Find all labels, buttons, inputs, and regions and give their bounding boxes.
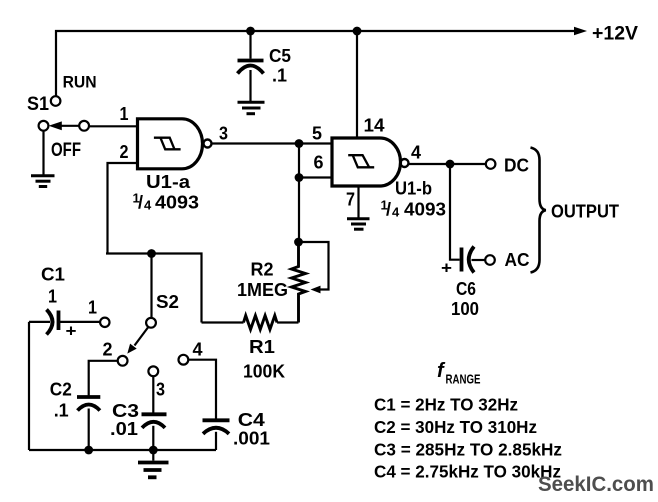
wire terminal 2 to C2 — [89, 361, 118, 396]
wire U1-b pin 6 — [299, 176, 332, 178]
svg-text:DC: DC — [504, 156, 529, 176]
wire S1 OFF to ground — [42, 131, 44, 175]
wire C6 to AC terminal — [472, 259, 486, 261]
svg-text:/: / — [386, 200, 391, 220]
node +12V arrow — [574, 27, 587, 35]
svg-text:3: 3 — [156, 380, 165, 400]
resistor R1 100K — [244, 316, 278, 330]
ground bottom bus — [138, 463, 169, 478]
wire rail to U1-b pin 14 — [356, 31, 358, 137]
svg-text:C4: C4 — [238, 410, 265, 430]
ground S1 — [31, 176, 55, 187]
junction dot pin 5 node — [295, 139, 304, 148]
svg-text:.1: .1 — [272, 66, 287, 86]
wire timing node horizontal — [106, 254, 202, 323]
svg-text:AC: AC — [505, 250, 530, 270]
wire C4 to bus — [215, 432, 217, 450]
wire C1 left lead — [29, 321, 50, 323]
junction dot R2 top node — [294, 238, 303, 247]
wire S2 tap down to pivot — [150, 254, 152, 319]
wire S1 pivot to U1-a pin 1 — [89, 125, 138, 127]
terminal DC — [486, 159, 496, 169]
svg-text:C1: C1 — [41, 265, 65, 285]
svg-text:OUTPUT: OUTPUT — [551, 202, 619, 222]
junction dot pin 6 node — [295, 173, 304, 182]
wire bottom bus — [29, 449, 216, 451]
wire C2 to bus — [88, 409, 90, 451]
svg-text:R2: R2 — [251, 260, 274, 280]
U1-b schmitt hysteresis glyph — [348, 155, 374, 167]
resistor R2 1MEG (rheostat) — [292, 242, 306, 323]
terminal AC — [485, 255, 495, 265]
svg-text:.1: .1 — [54, 401, 69, 421]
svg-text:C2 = 30Hz TO 310Hz: C2 = 30Hz TO 310Hz — [374, 417, 537, 437]
svg-text:2: 2 — [103, 340, 113, 360]
svg-text:.01: .01 — [110, 419, 138, 439]
svg-text:OFF: OFF — [51, 140, 81, 161]
R2 wiper arm — [299, 242, 329, 290]
svg-text:4093: 4093 — [155, 193, 199, 213]
capacitor C1 — [47, 310, 53, 335]
wire output node down to C6 — [450, 164, 460, 260]
svg-text:1MEG: 1MEG — [237, 280, 288, 300]
switch S1 OFF contact — [39, 121, 49, 131]
capacitor C6 — [460, 248, 464, 272]
junction dot C2 bus — [84, 446, 93, 455]
U1-b output bubble — [401, 159, 409, 167]
svg-text:C3 = 285Hz TO 2.85kHz: C3 = 285Hz TO 2.85kHz — [374, 440, 562, 460]
wire top +12V rail — [56, 31, 575, 96]
switch S2 pivot contact — [146, 318, 156, 328]
svg-text:+: + — [441, 259, 452, 278]
switch S2 wiper arrow — [135, 327, 149, 346]
junction dot output node — [446, 160, 455, 169]
svg-text:4: 4 — [144, 198, 152, 213]
svg-text:/: / — [138, 193, 143, 213]
svg-text:S2: S2 — [156, 292, 179, 312]
svg-text:4: 4 — [392, 205, 400, 220]
svg-text:14: 14 — [364, 116, 385, 136]
svg-text:4093: 4093 — [404, 200, 446, 220]
svg-text:3: 3 — [219, 124, 228, 144]
svg-text:C4 = 2.75kHz TO 30kHz: C4 = 2.75kHz TO 30kHz — [374, 462, 561, 482]
wire C1 down left side — [28, 322, 30, 450]
capacitor C4 — [203, 418, 230, 422]
svg-text:C1 = 2Hz TO 32Hz: C1 = 2Hz TO 32Hz — [374, 395, 518, 415]
ground U1-b pin 7 — [347, 219, 370, 229]
svg-text:C3: C3 — [112, 401, 139, 421]
svg-text:1: 1 — [88, 298, 97, 318]
junction dot S2 tap — [147, 249, 156, 258]
svg-text:C6: C6 — [456, 279, 476, 299]
wire U1-b output to DC terminal — [409, 163, 486, 165]
svg-text:C5: C5 — [269, 46, 291, 66]
svg-text:S1: S1 — [27, 94, 49, 115]
switch S1 RUN contact — [51, 96, 61, 106]
U1-a output bubble — [204, 140, 212, 148]
svg-text:SeekIC.com: SeekIC.com — [538, 473, 654, 496]
junction dot C5 tap — [246, 27, 255, 36]
svg-text:100K: 100K — [243, 362, 285, 382]
svg-text:1: 1 — [120, 104, 129, 124]
capacitor C5 — [238, 59, 264, 63]
switch S2 terminal 3 — [148, 366, 158, 376]
svg-text:6: 6 — [314, 153, 324, 173]
op-amp U1-a NAND gate body — [138, 119, 203, 169]
switch S1 pivot contact — [79, 121, 89, 131]
wire node down pins 5-6 to R2 — [298, 144, 300, 243]
svg-text:5: 5 — [312, 124, 322, 144]
wire U1-a pin 2 — [108, 163, 138, 254]
svg-text:R1: R1 — [249, 337, 275, 357]
wire R1 right lead to R2 — [277, 321, 298, 323]
junction dot pin14 tap — [353, 27, 362, 36]
switch S2 terminal 4 — [179, 355, 189, 365]
junction dot C3 bus — [149, 446, 158, 455]
capacitor C3 — [142, 412, 167, 416]
wire U1-b pin 7 to ground — [357, 186, 359, 218]
op-amp U1-b NAND gate body — [332, 138, 401, 186]
wire R1 left lead — [202, 321, 244, 323]
wire terminal 4 to C4 — [188, 360, 216, 419]
svg-text:U1-b: U1-b — [395, 179, 432, 199]
ground C5 — [238, 102, 265, 113]
svg-text:7: 7 — [346, 190, 355, 210]
wire rail to C5 — [249, 31, 251, 59]
svg-text:4: 4 — [411, 143, 421, 163]
svg-text:+: + — [66, 322, 77, 341]
svg-text:C2: C2 — [50, 379, 72, 399]
svg-text:1: 1 — [48, 287, 57, 307]
wire C3 to bus — [152, 426, 154, 450]
svg-text:RANGE: RANGE — [446, 372, 481, 387]
switch S1 wiper arrow — [59, 125, 79, 127]
U1-a schmitt hysteresis glyph — [154, 138, 181, 150]
svg-text:2: 2 — [120, 142, 129, 162]
svg-text:+12V: +12V — [592, 24, 638, 45]
svg-text:4: 4 — [193, 340, 203, 360]
wire bus to ground stem — [152, 450, 154, 461]
node OUTPUT brace — [531, 148, 546, 273]
svg-text:RUN: RUN — [63, 73, 97, 92]
svg-text:100: 100 — [451, 299, 479, 319]
wire C5 to ground — [249, 70, 251, 101]
wire terminal 3 to C3 — [152, 376, 154, 412]
wire C1 right lead to terminal 1 — [59, 321, 101, 323]
svg-text:.001: .001 — [233, 429, 270, 449]
wire U1-a output to U1-b inputs — [212, 142, 333, 144]
capacitor C2 — [77, 395, 100, 399]
switch S2 terminal 2 — [118, 356, 128, 366]
svg-text:U1-a: U1-a — [146, 172, 191, 192]
switch S2 terminal 1 — [100, 318, 109, 327]
